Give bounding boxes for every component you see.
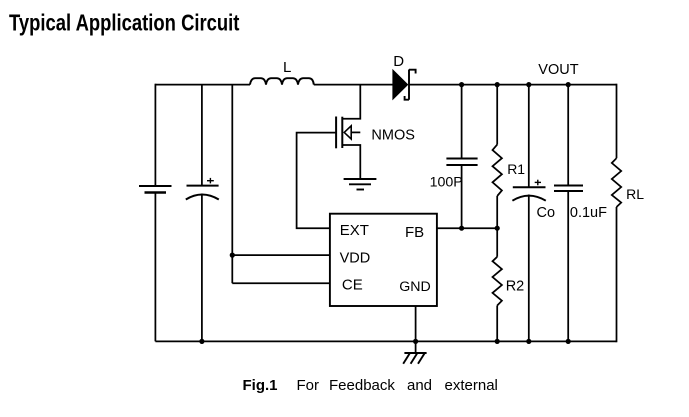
- capacitor C2 0.1uF: [554, 186, 583, 192]
- svg-text:NMOS: NMOS: [371, 128, 415, 144]
- transistor Q1 body lead: [351, 131, 360, 133]
- label + (Cin): [207, 178, 214, 184]
- wire FB node to R2: [496, 228, 498, 257]
- wire NMOS source to ground: [342, 145, 360, 179]
- wire battery branch lower: [154, 193, 156, 342]
- wire input cap branch lower: [201, 194, 203, 342]
- wire Co branch upper: [528, 85, 530, 188]
- label Co: [537, 205, 556, 221]
- node dots: [199, 82, 571, 344]
- wire RL branch upper: [616, 84, 618, 159]
- label R2: [506, 279, 525, 295]
- node FB / divider: [495, 226, 500, 231]
- capacitor C1 100P: [446, 159, 477, 166]
- wire CE to IC: [232, 282, 330, 284]
- label D: [393, 53, 404, 70]
- wire R2 to bottom rail: [496, 306, 498, 342]
- caption Fig.1: [243, 377, 498, 394]
- title: Typical Application Circuit: [9, 10, 239, 36]
- svg-text:100P: 100P: [430, 175, 463, 191]
- svg-text:VOUT: VOUT: [538, 62, 578, 78]
- node bottom rail / Co: [526, 339, 531, 344]
- node top rail / R1: [495, 82, 500, 87]
- wire VDD/CE branch vertical: [231, 85, 233, 284]
- wire 0.1uF branch upper: [567, 85, 569, 186]
- label L: [283, 59, 291, 76]
- svg-text:Fig.1: Fig.1: [243, 377, 278, 394]
- wire IC GND pin: [415, 306, 417, 353]
- ground (chassis, IC GND): [403, 353, 426, 364]
- wire input cap branch upper: [201, 85, 203, 186]
- svg-text:L: L: [283, 59, 291, 76]
- label + (Co): [535, 180, 541, 186]
- transistor Q1 body arrow: [344, 126, 351, 139]
- svg-text:external: external: [445, 377, 498, 394]
- transistor Q1 NMOS gate bar: [335, 117, 337, 149]
- wire top rail right (diode cathode to RL corner): [409, 84, 617, 86]
- svg-text:CE: CE: [342, 276, 363, 293]
- svg-text:Co: Co: [537, 205, 556, 221]
- ground (NMOS source): [344, 179, 377, 190]
- wire FB to divider node: [437, 227, 497, 229]
- node top rail / 100P: [459, 82, 464, 87]
- resistor RL: [612, 158, 621, 207]
- svg-text:EXT: EXT: [340, 222, 369, 239]
- pin FB: [405, 224, 424, 241]
- wire 100P branch lower: [461, 165, 463, 228]
- svg-text:and: and: [407, 377, 432, 394]
- svg-text:RL: RL: [626, 186, 644, 202]
- label R1: [507, 161, 525, 177]
- resistor R1: [493, 145, 502, 196]
- svg-text:For: For: [297, 377, 320, 394]
- resistor R2: [493, 257, 502, 306]
- svg-text:R1: R1: [507, 161, 525, 177]
- svg-text:Typical Application Circuit: Typical Application Circuit: [9, 10, 239, 36]
- wire top rail left (battery to inductor): [155, 84, 250, 86]
- label RL: [626, 186, 644, 202]
- node bottom rail / GND: [413, 339, 418, 344]
- capacitor Cin (electrolytic): [186, 186, 219, 200]
- node VDD junction: [230, 253, 235, 258]
- wire R1 to FB node: [496, 196, 498, 228]
- pin GND: [399, 279, 431, 295]
- svg-text:FB: FB: [405, 224, 424, 241]
- svg-text:GND: GND: [399, 279, 431, 295]
- wire 0.1uF branch lower: [567, 191, 569, 341]
- wire battery branch upper: [154, 84, 156, 186]
- svg-text:0.1uF: 0.1uF: [570, 205, 607, 221]
- wire RL branch lower: [616, 207, 618, 342]
- transistor Q1 channel bar: [341, 117, 343, 148]
- wire top rail middle (inductor to diode anode): [314, 84, 394, 86]
- label 0.1uF: [570, 205, 607, 221]
- pin CE: [342, 276, 363, 293]
- pin VDD: [340, 251, 371, 267]
- svg-text:Feedback: Feedback: [329, 377, 395, 394]
- node FB / 100P: [459, 226, 464, 231]
- node bottom rail / 0.1uF: [566, 339, 571, 344]
- diode D (schottky): [393, 70, 416, 100]
- pin EXT: [340, 222, 369, 239]
- op-amp U1 (IC block): [330, 214, 437, 306]
- wire R1 branch upper: [496, 85, 498, 145]
- node top rail / Co: [526, 82, 531, 87]
- label 100P: [430, 175, 463, 191]
- svg-text:VDD: VDD: [340, 251, 371, 267]
- wire 100P branch upper: [461, 85, 463, 159]
- capacitor Co (electrolytic): [512, 187, 545, 200]
- node bottom rail / Cin: [199, 339, 204, 344]
- node bottom rail / R2: [495, 339, 500, 344]
- svg-text:R2: R2: [506, 279, 525, 295]
- label VOUT: [538, 62, 578, 78]
- svg-text:D: D: [393, 53, 404, 70]
- wire Co branch lower: [528, 195, 530, 342]
- wire NMOS drain to top rail: [342, 85, 360, 119]
- wire bottom rail: [155, 340, 616, 342]
- node top rail / 0.1uF: [566, 82, 571, 87]
- wire VDD to IC: [232, 254, 330, 256]
- wire gate to EXT pin: [297, 133, 337, 229]
- battery B1: [139, 186, 172, 193]
- inductor L: [250, 78, 314, 84]
- label NMOS: [371, 128, 415, 144]
